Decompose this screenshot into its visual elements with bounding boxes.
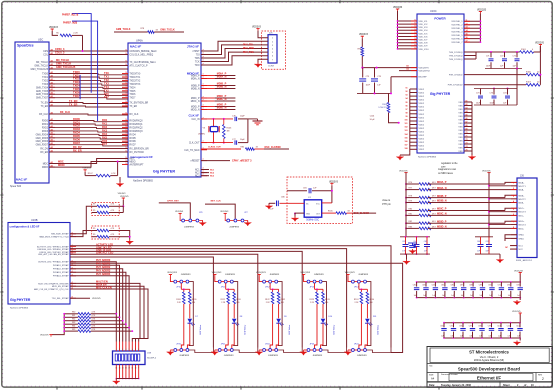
svg-text:TXD0: TXD0	[42, 74, 49, 76]
svg-text:1uF: 1uF	[451, 295, 454, 297]
svg-text:JUMPER3: JUMPER3	[270, 274, 281, 276]
svg-text:VSS: VSS	[458, 130, 463, 132]
svg-text:VSS: VSS	[458, 147, 463, 149]
svg-text:VDD2: VDD2	[419, 114, 425, 116]
svg-text:TX1: TX1	[104, 75, 109, 79]
svg-text:RXD2: RXD2	[42, 127, 49, 129]
svg-text:R83: R83	[72, 322, 75, 324]
svg-text:MDIC_N: MDIC_N	[217, 98, 227, 101]
svg-text:VDDQSYS: VDDQSYS	[419, 68, 430, 70]
svg-text:MDID_N: MDID_N	[217, 107, 227, 110]
svg-text:RXD1: RXD1	[73, 120, 80, 124]
svg-text:13: 13	[466, 27, 468, 29]
svg-text:PHYAD1_STRAP: PHYAD1_STRAP	[53, 264, 69, 267]
svg-text:C75: C75	[513, 56, 516, 58]
svg-text:VDDYHD_5: VDDYHD_5	[451, 35, 463, 37]
svg-text:R9: R9	[93, 228, 95, 230]
svg-text:TXD5: TXD5	[73, 87, 80, 91]
svg-text:CPHY_nRESET 3: CPHY_nRESET 3	[232, 160, 252, 163]
svg-text:GMII_TXD6: GMII_TXD6	[36, 94, 49, 96]
svg-text:JTAG I/F: JTAG I/F	[187, 45, 199, 49]
svg-text:R120: R120	[176, 299, 181, 301]
svg-text:JUMPER3: JUMPER3	[314, 274, 325, 276]
svg-text:R122: R122	[265, 299, 270, 301]
svg-text:9: 9	[138, 367, 139, 369]
svg-text:VDD2: VDD2	[419, 96, 425, 98]
svg-text:RXD5: RXD5	[130, 138, 137, 140]
svg-text:TX_ER: TX_ER	[41, 106, 49, 108]
svg-text:R82: R82	[409, 221, 412, 223]
svg-text:69: 69	[466, 129, 468, 131]
svg-text:MDIB_N: MDIB_N	[437, 200, 447, 203]
svg-text:LED Yellow: LED Yellow	[245, 324, 247, 334]
svg-text:25MHz: 25MHz	[198, 134, 205, 136]
svg-text:9: 9	[415, 29, 416, 31]
svg-text:COL/CLK_MDL_FREQ: COL/CLK_MDL_FREQ	[130, 55, 154, 57]
svg-text:MAN_MDIX_STRAP/TTC_TTQ4: MAN_MDIX_STRAP/TTC_TTQ4	[39, 236, 69, 239]
svg-text:2: 2	[119, 349, 120, 351]
svg-text:MDID_N: MDID_N	[191, 110, 200, 112]
svg-text:RX6: RX6	[102, 139, 108, 143]
svg-text:ANTERRUPT: ANTERRUPT	[130, 164, 145, 167]
svg-text:VSS: VSS	[458, 144, 463, 146]
svg-text:1uF: 1uF	[432, 295, 435, 297]
svg-text:U16C: U16C	[430, 9, 437, 13]
svg-text:C92: C92	[507, 285, 510, 287]
svg-text:GMII_RXD7: GMII_RXD7	[36, 145, 49, 147]
svg-text:VSS: VSS	[458, 133, 463, 135]
svg-text:core: core	[441, 166, 446, 169]
svg-text:PHYAD4_STRAP: PHYAD4_STRAP	[53, 275, 69, 278]
svg-text:C63: C63	[402, 241, 405, 243]
svg-text:14: 14	[466, 29, 468, 32]
svg-text:10pF: 10pF	[240, 139, 245, 141]
svg-text:TXD2: TXD2	[73, 77, 80, 81]
svg-text:JUMPER3: JUMPER3	[225, 274, 236, 276]
svg-text:MDIA_N: MDIA_N	[437, 187, 447, 190]
svg-text:RX_ER/RXDV_BR: RX_ER/RXDV_BR	[130, 149, 149, 151]
svg-text:1uF: 1uF	[470, 336, 473, 338]
svg-text:20041 Agrate Brianza (MI): 20041 Agrate Brianza (MI)	[474, 358, 504, 362]
svg-text:VDDYHD_7: VDDYHD_7	[451, 42, 463, 44]
svg-text:98: 98	[406, 112, 408, 114]
svg-text:VSS: VSS	[458, 123, 463, 125]
svg-text:MDIA_N: MDIA_N	[191, 78, 200, 81]
svg-text:RX_DV: RX_DV	[73, 145, 82, 149]
svg-text:93: 93	[406, 95, 408, 97]
svg-text:GMII_TXCLK: GMII_TXCLK	[116, 28, 131, 31]
svg-text:ACTIVITY_LED / SPEED1_STRAP: ACTIVITY_LED / SPEED1_STRAP	[37, 245, 69, 248]
svg-text:R132: R132	[281, 299, 286, 301]
svg-text:2: 2	[542, 377, 544, 381]
svg-text:1uF: 1uF	[423, 295, 426, 297]
svg-text:5: 5	[513, 209, 514, 211]
svg-text:R82: R82	[72, 319, 75, 321]
svg-text:TX_ER: TX_ER	[69, 102, 77, 106]
svg-text:VDD3V3: VDD3V3	[359, 34, 369, 36]
svg-text:TXD1: TXD1	[73, 73, 80, 77]
svg-text:CON7: CON7	[268, 66, 275, 68]
svg-text:NatSemi DP83865: NatSemi DP83865	[133, 180, 153, 183]
svg-text:1uF: 1uF	[451, 336, 454, 338]
svg-text:1uF: 1uF	[470, 295, 473, 297]
svg-text:C98: C98	[478, 325, 481, 327]
svg-text:Ethernet I/F: Ethernet I/F	[477, 376, 501, 381]
svg-text:RX5: RX5	[102, 135, 108, 139]
svg-text:VSS: VSS	[458, 112, 463, 114]
svg-text:VDDYHD_2: VDDYHD_2	[451, 25, 463, 27]
svg-text:VDD_IO4: VDD_IO4	[419, 30, 429, 32]
svg-text:BN_REF: BN_REF	[419, 77, 428, 79]
svg-text:101: 101	[405, 123, 408, 125]
svg-text:VDD2: VDD2	[419, 132, 425, 134]
svg-text:MAC I/F: MAC I/F	[130, 45, 141, 49]
svg-text:R124: R124	[354, 299, 359, 301]
svg-text:TX7: TX7	[104, 95, 109, 99]
svg-text:JUMPER3: JUMPER3	[358, 274, 369, 276]
svg-text:TX2: TX2	[104, 78, 109, 82]
svg-text:MDIO: MDIO	[130, 162, 136, 164]
svg-text:VSS: VSS	[458, 105, 463, 107]
svg-text:75: 75	[466, 150, 468, 152]
svg-text:NatSemi DP83865: NatSemi DP83865	[418, 156, 437, 159]
svg-text:PHY_TDI: PHY_TDI	[243, 45, 253, 47]
svg-text:14: 14	[122, 367, 124, 369]
svg-text:RXD2: RXD2	[73, 124, 80, 128]
svg-text:MDB-: MDB-	[519, 203, 525, 205]
svg-text:RX_DV/TRCK: RX_DV/TRCK	[130, 152, 145, 154]
svg-text:Gig PHYTER: Gig PHYTER	[153, 170, 175, 174]
svg-text:R130: R130	[192, 299, 197, 301]
svg-text:GMII_TXCLK: GMII_TXCLK	[160, 28, 175, 31]
svg-text:MDIA_P: MDIA_P	[437, 181, 447, 184]
svg-text:R85: R85	[72, 329, 75, 331]
svg-text:CRS0_3: CRS0_3	[55, 48, 65, 51]
svg-text:Spear500 Development Board: Spear500 Development Board	[458, 367, 521, 372]
svg-text:TXD2/TX2: TXD2/TX2	[130, 80, 141, 82]
svg-text:VDD2: VDD2	[419, 117, 425, 119]
svg-text:MDC: MDC	[58, 160, 64, 163]
svg-text:7: 7	[513, 222, 514, 224]
svg-text:TX_EN/TXEN_BR: TX_EN/TXEN_BR	[130, 103, 149, 105]
svg-text:VDD_IO2: VDD_IO2	[419, 24, 429, 26]
svg-text:VDD2: VDD2	[419, 110, 425, 112]
svg-text:LINK_ACT_LED / AN_EN_STRAP: LINK_ACT_LED / AN_EN_STRAP	[38, 253, 69, 256]
svg-text:RX_CLK: RX_CLK	[60, 111, 70, 114]
svg-text:R77: R77	[409, 188, 412, 190]
svg-text:THS_3#VDDQ: THS_3#VDDQ	[449, 52, 463, 54]
svg-text:9: 9	[415, 26, 416, 28]
svg-text:POWER: POWER	[434, 17, 446, 21]
svg-text:VDD2: VDD2	[419, 103, 425, 105]
svg-text:103: 103	[405, 130, 408, 132]
svg-text:CLK_IN: CLK_IN	[191, 119, 199, 121]
svg-text:63: 63	[466, 108, 468, 110]
svg-text:TXD7: TXD7	[73, 94, 80, 98]
svg-text:10: 10	[135, 367, 137, 369]
svg-text:TX0: TX0	[104, 71, 109, 75]
svg-text:RX7: RX7	[102, 142, 108, 146]
svg-text:1M: 1M	[227, 131, 230, 133]
svg-text:RXD0: RXD0	[42, 121, 49, 123]
svg-text:C86: C86	[451, 285, 454, 287]
svg-text:VDD3V3: VDD3V3	[49, 27, 59, 29]
svg-text:RX1: RX1	[102, 122, 108, 126]
svg-text:104: 104	[405, 133, 408, 136]
svg-text:C73: C73	[476, 93, 479, 95]
svg-text:C84: C84	[432, 285, 435, 287]
svg-text:VDD2V5: VDD2V5	[40, 335, 49, 337]
svg-text:J26: J26	[520, 175, 525, 178]
svg-text:9: 9	[415, 47, 416, 49]
svg-text:RX0: RX0	[102, 118, 108, 122]
svg-text:DUPLEX_LED / PHYAD0_STRAP: DUPLEX_LED / PHYAD0_STRAP	[38, 261, 69, 264]
svg-text:1uF: 1uF	[489, 336, 492, 338]
svg-text:VDD_IO7: VDD_IO7	[419, 40, 429, 42]
svg-text:TXD3: TXD3	[73, 80, 80, 84]
svg-text:C91: C91	[498, 285, 501, 287]
svg-text:TXD4: TXD4	[130, 87, 137, 89]
svg-text:9: 9	[415, 35, 416, 37]
svg-text:4: 4	[125, 349, 126, 351]
svg-text:73: 73	[466, 143, 468, 145]
svg-text:A4: A4	[431, 377, 435, 381]
svg-text:105: 105	[405, 137, 408, 139]
svg-text:R76: R76	[409, 182, 412, 184]
svg-text:4.7K: 4.7K	[111, 173, 116, 175]
svg-text:91: 91	[406, 88, 408, 90]
svg-text:VDD3V3: VDD3V3	[118, 193, 127, 195]
svg-text:VDD2V5: VDD2V5	[120, 196, 129, 198]
svg-text:VDD_IO9: VDD_IO9	[419, 46, 429, 48]
svg-text:CPHY_RST: CPHY_RST	[167, 201, 179, 203]
svg-text:68: 68	[466, 125, 468, 127]
svg-text:LED Yellow: LED Yellow	[289, 324, 291, 334]
svg-text:MDC: MDC	[43, 164, 49, 166]
svg-text:VDD3V3: VDD3V3	[220, 211, 229, 213]
svg-text:RXD0: RXD0	[73, 117, 80, 121]
svg-text:LED Yellow: LED Yellow	[333, 324, 335, 334]
svg-text:TXD0/TX0: TXD0/TX0	[130, 74, 141, 76]
svg-text:TXD3/TX3: TXD3/TX3	[130, 84, 141, 86]
svg-text:71: 71	[466, 136, 468, 138]
svg-text:nRESET: nRESET	[191, 161, 201, 163]
svg-text:17: 17	[466, 41, 468, 43]
svg-text:C66: C66	[477, 241, 480, 243]
svg-text:VDD2: VDD2	[419, 135, 425, 137]
svg-text:JUMPER3: JUMPER3	[181, 274, 192, 276]
svg-text:LINK1000_LED / SPEED0_STRAP: LINK1000_LED / SPEED0_STRAP	[37, 248, 69, 251]
svg-text:TX4: TX4	[104, 85, 109, 89]
svg-text:VDDYHD_6: VDDYHD_6	[451, 39, 463, 41]
svg-text:C90: C90	[488, 285, 491, 287]
svg-text:MDA-: MDA-	[519, 189, 525, 192]
svg-text:15: 15	[119, 367, 121, 369]
svg-text:VSS: VSS	[458, 102, 463, 104]
svg-text:MDIO: MDIO	[58, 164, 65, 167]
svg-text:VDDQSYS2: VDDQSYS2	[419, 71, 431, 73]
svg-text:GND: GND	[306, 214, 311, 216]
svg-text:RXD3/RXQ3: RXD3/RXQ3	[130, 131, 144, 133]
svg-text:RX_DV: RX_DV	[40, 149, 48, 151]
svg-text:MDID_P: MDID_P	[437, 220, 447, 223]
svg-text:THS_3#VDDQ: THS_3#VDDQ	[449, 55, 463, 57]
svg-text:JUMPER3: JUMPER3	[313, 355, 324, 357]
svg-text:MAC CLK EN: MAC CLK EN	[96, 286, 112, 289]
svg-text:1uF: 1uF	[517, 295, 520, 297]
svg-text:RX2: RX2	[102, 125, 108, 129]
svg-text:16: 16	[115, 367, 117, 369]
svg-text:100: 100	[405, 120, 408, 122]
svg-text:97: 97	[406, 109, 408, 111]
svg-text:106: 106	[405, 141, 408, 143]
svg-text:COL0_3: COL0_3	[55, 51, 65, 54]
svg-text:TXD0: TXD0	[73, 70, 80, 74]
svg-text:VDD2V5: VDD2V5	[92, 298, 101, 300]
svg-text:C95: C95	[450, 325, 453, 327]
svg-text:TXD4: TXD4	[73, 84, 80, 88]
svg-text:COL: COL	[43, 55, 48, 57]
svg-text:TX_EN: TX_EN	[41, 103, 49, 105]
svg-text:of: of	[524, 384, 526, 387]
svg-text:R131: R131	[236, 299, 241, 301]
svg-text:MDID_N: MDID_N	[437, 226, 447, 229]
svg-text:9: 9	[415, 20, 416, 22]
svg-text:RXD4: RXD4	[73, 131, 80, 135]
svg-text:MDIB_P: MDIB_P	[191, 86, 200, 88]
svg-text:50MHz OSC: 50MHz OSC	[306, 220, 319, 222]
svg-text:CLK I/F: CLK I/F	[189, 114, 200, 118]
svg-text:Tuesday, January 22, 2008: Tuesday, January 22, 2008	[441, 384, 471, 387]
svg-text:PHY pin: PHY pin	[382, 204, 391, 206]
svg-text:62: 62	[466, 104, 468, 106]
svg-text:C99: C99	[488, 325, 491, 327]
svg-text:1uF: 1uF	[479, 336, 482, 338]
svg-text:96: 96	[406, 105, 408, 107]
svg-text:TXD7: TXD7	[130, 98, 137, 100]
svg-text:on MDI traces: on MDI traces	[438, 172, 454, 175]
svg-text:9: 9	[415, 32, 416, 34]
svg-text:9: 9	[415, 44, 416, 46]
svg-text:VDD3V3: VDD3V3	[175, 211, 184, 213]
svg-text:RXD3: RXD3	[42, 131, 49, 133]
svg-text:RXD7: RXD7	[73, 141, 80, 145]
svg-text:LED Yellow: LED Yellow	[378, 324, 380, 334]
svg-text:TX_ER: TX_ER	[130, 106, 138, 108]
svg-text:1uF: 1uF	[517, 336, 520, 338]
svg-text:C88: C88	[469, 285, 472, 287]
svg-text:MDB+: MDB+	[519, 195, 526, 197]
svg-text:16: 16	[466, 37, 468, 39]
svg-text:R80: R80	[409, 209, 412, 211]
svg-text:VDD_IO6: VDD_IO6	[419, 36, 429, 38]
svg-text:TXD3: TXD3	[42, 84, 49, 86]
svg-text:1uF: 1uF	[480, 295, 483, 297]
svg-text:Title: Title	[429, 365, 433, 368]
svg-text:R81: R81	[72, 315, 75, 317]
svg-text:64: 64	[466, 110, 468, 113]
svg-text:1uF: 1uF	[414, 295, 417, 297]
svg-text:C102: C102	[516, 325, 520, 327]
svg-text:GMII_RXD4: GMII_RXD4	[36, 134, 49, 136]
svg-text:C76: C76	[490, 93, 493, 95]
svg-text:1uF: 1uF	[441, 336, 444, 338]
svg-text:PVR_3#VDDD: PVR_3#VDDD	[449, 75, 463, 77]
svg-text:MDIC_N: MDIC_N	[191, 101, 200, 103]
svg-text:VDD_IO8: VDD_IO8	[419, 43, 429, 45]
svg-text:MDIC_P: MDIC_P	[191, 98, 200, 100]
svg-text:VDDQ3V3: VDDQ3V3	[300, 272, 311, 274]
svg-text:VSS: VSS	[458, 151, 463, 153]
svg-text:R78: R78	[409, 196, 412, 198]
svg-text:VDD2: VDD2	[419, 139, 425, 141]
svg-text:MDCT4: MDCT4	[519, 225, 527, 227]
svg-text:RX_ER: RX_ER	[73, 148, 82, 152]
svg-text:1uF: 1uF	[498, 295, 501, 297]
svg-text:VSS: VSS	[458, 126, 463, 128]
svg-text:U5C: U5C	[38, 38, 43, 42]
svg-text:ST Microelectronics: ST Microelectronics	[469, 350, 509, 355]
svg-text:VDD3V3: VDD3V3	[82, 168, 91, 170]
svg-text:TDO_SEL_STRAP: TDO_SEL_STRAP	[52, 297, 70, 300]
svg-text:R134: R134	[369, 299, 374, 301]
svg-text:1uF: 1uF	[460, 336, 463, 338]
svg-text:RXD5: RXD5	[73, 134, 80, 138]
svg-text:MDCT2: MDCT2	[519, 199, 527, 201]
svg-text:9.76K 1%: 9.76K 1%	[378, 107, 387, 109]
svg-text:JUMPER3: JUMPER3	[179, 355, 190, 357]
svg-text:R84: R84	[72, 325, 75, 327]
svg-text:VSS: VSS	[458, 137, 463, 139]
svg-text:33: 33	[256, 147, 258, 149]
svg-text:VDD_IO3: VDD_IO3	[419, 27, 429, 29]
svg-text:R9: R9	[93, 234, 95, 236]
svg-text:NC3: NC3	[195, 176, 200, 178]
svg-text:C83: C83	[422, 285, 425, 287]
svg-text:MDIC_N: MDIC_N	[437, 213, 447, 216]
svg-text:1: 1	[116, 349, 117, 351]
svg-text:SIL08P-2: SIL08P-2	[147, 358, 157, 360]
svg-text:PHREF_N[0]: PHREF_N[0]	[63, 22, 77, 25]
svg-text:JUMPER3: JUMPER3	[229, 227, 240, 229]
svg-text:VDD2: VDD2	[419, 89, 425, 91]
svg-text:1uF: 1uF	[489, 295, 492, 297]
svg-text:TX3: TX3	[104, 81, 109, 85]
svg-text:MII_TXCLK: MII_TXCLK	[36, 62, 48, 64]
svg-text:RXD3: RXD3	[73, 127, 80, 131]
svg-text:RX4: RX4	[102, 132, 108, 136]
svg-text:SIZE: SIZE	[429, 375, 434, 377]
svg-text:C85: C85	[441, 285, 444, 287]
svg-text:MDIC_P: MDIC_P	[437, 208, 447, 211]
svg-text:CRS: CRS	[43, 51, 48, 53]
svg-text:11: 11	[466, 20, 468, 22]
svg-text:TXD1/TX1: TXD1/TX1	[130, 77, 141, 79]
svg-text:LED Yellow: LED Yellow	[200, 324, 202, 334]
svg-text:SHLD: SHLD	[519, 235, 525, 237]
svg-text:C79: C79	[366, 76, 369, 78]
svg-text:108: 108	[405, 148, 408, 150]
svg-text:VDDYHD_4: VDDYHD_4	[451, 32, 463, 34]
svg-text:VDDQ3V3: VDDQ3V3	[256, 272, 267, 274]
svg-text:NC2: NC2	[195, 173, 200, 175]
svg-text:nTRST: nTRST	[192, 51, 200, 53]
svg-text:R79: R79	[409, 201, 412, 203]
svg-text:TMS: TMS	[195, 58, 200, 60]
svg-text:70: 70	[466, 132, 468, 134]
svg-text:PHYAD3_STRAP: PHYAD3_STRAP	[53, 271, 69, 274]
svg-text:TXD5: TXD5	[130, 91, 137, 93]
